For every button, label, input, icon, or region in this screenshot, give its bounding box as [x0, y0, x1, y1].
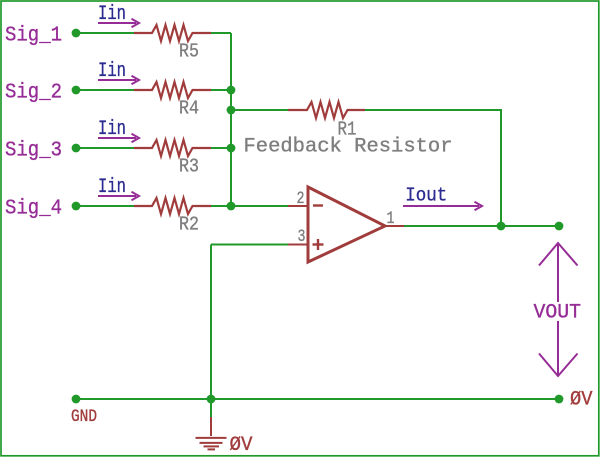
svg-text:R3: R3 — [179, 155, 199, 177]
wire bus to pin 2 — [231, 205, 288, 207]
svg-text:Feedback Resistor: Feedback Resistor — [244, 136, 453, 159]
wire Sig_4 to R2 — [76, 205, 134, 207]
junction dot feedback tap — [227, 106, 236, 115]
wire R2 to bus — [211, 205, 231, 207]
junction dot Sig_2 — [72, 86, 81, 95]
op-amp U1 — [308, 187, 385, 262]
junction dot output end — [555, 222, 564, 231]
svg-text:Sig_1: Sig_1 — [5, 23, 62, 47]
junction dot Sig_4 — [72, 202, 81, 211]
pin 2 lead — [288, 205, 308, 207]
current arrow Iout — [403, 202, 482, 210]
svg-text:1: 1 — [387, 209, 395, 229]
junction dot Sig_1 — [72, 29, 81, 38]
current arrow Iin row2 — [98, 76, 139, 84]
wire bus to R1 — [231, 109, 288, 111]
op-amp minus mark — [313, 204, 323, 206]
junction dot R3 bus — [227, 144, 236, 153]
junction dot output-feedback — [497, 222, 506, 231]
annotation arrow VOUT — [539, 243, 578, 376]
resistor R3 — [134, 140, 211, 156]
svg-text:Sig_4: Sig_4 — [5, 196, 62, 220]
resistor R5 — [134, 25, 211, 41]
wire Sig_2 to R4 — [76, 89, 134, 91]
current arrow Iin row3 — [98, 134, 139, 142]
pin 3 lead — [288, 244, 308, 246]
wire R4 to bus — [211, 89, 231, 91]
wire pin3 vertical to ground rail — [210, 245, 212, 400]
svg-text:R4: R4 — [179, 97, 199, 119]
current arrow Iin row1 — [98, 19, 139, 27]
svg-text:Sig_3: Sig_3 — [5, 138, 62, 162]
junction dot R4 bus — [227, 86, 236, 95]
svg-text:3: 3 — [298, 227, 306, 247]
svg-text:Iout: Iout — [405, 185, 447, 207]
wire pin 3 to ground branch — [211, 244, 288, 246]
junction dot inverting node — [227, 202, 236, 211]
svg-text:R2: R2 — [179, 213, 199, 235]
wire R3 to bus — [211, 147, 231, 149]
wire summing bus vertical — [230, 33, 232, 206]
svg-text:GND: GND — [71, 407, 97, 427]
wire R5 to bus corner — [211, 32, 231, 34]
resistor R4 — [134, 82, 211, 98]
wire Sig_3 to R3 — [76, 147, 134, 149]
junction dot rail right end — [555, 395, 564, 404]
op-amp plus mark — [313, 239, 324, 250]
resistor R1 — [288, 102, 365, 118]
ground symbol 0V — [196, 417, 227, 449]
junction dot Sig_3 — [72, 144, 81, 153]
junction dot ground branch — [207, 395, 216, 404]
svg-text:ØV: ØV — [570, 389, 593, 412]
svg-text:2: 2 — [297, 189, 305, 209]
wire ground rail — [76, 398, 559, 400]
pin 1 lead — [385, 225, 404, 227]
current arrow Iin row4 — [98, 192, 139, 200]
svg-text:ØV: ØV — [230, 434, 253, 457]
wire Sig_1 to R5 — [76, 32, 134, 34]
junction dot GND end — [72, 395, 81, 404]
wire output — [404, 225, 559, 227]
svg-text:Sig_2: Sig_2 — [5, 80, 62, 104]
svg-text:R5: R5 — [179, 40, 199, 62]
wire stub to ground symbol — [210, 399, 212, 417]
wire R1 to feedback corner — [365, 110, 501, 226]
resistor R2 — [134, 198, 211, 214]
